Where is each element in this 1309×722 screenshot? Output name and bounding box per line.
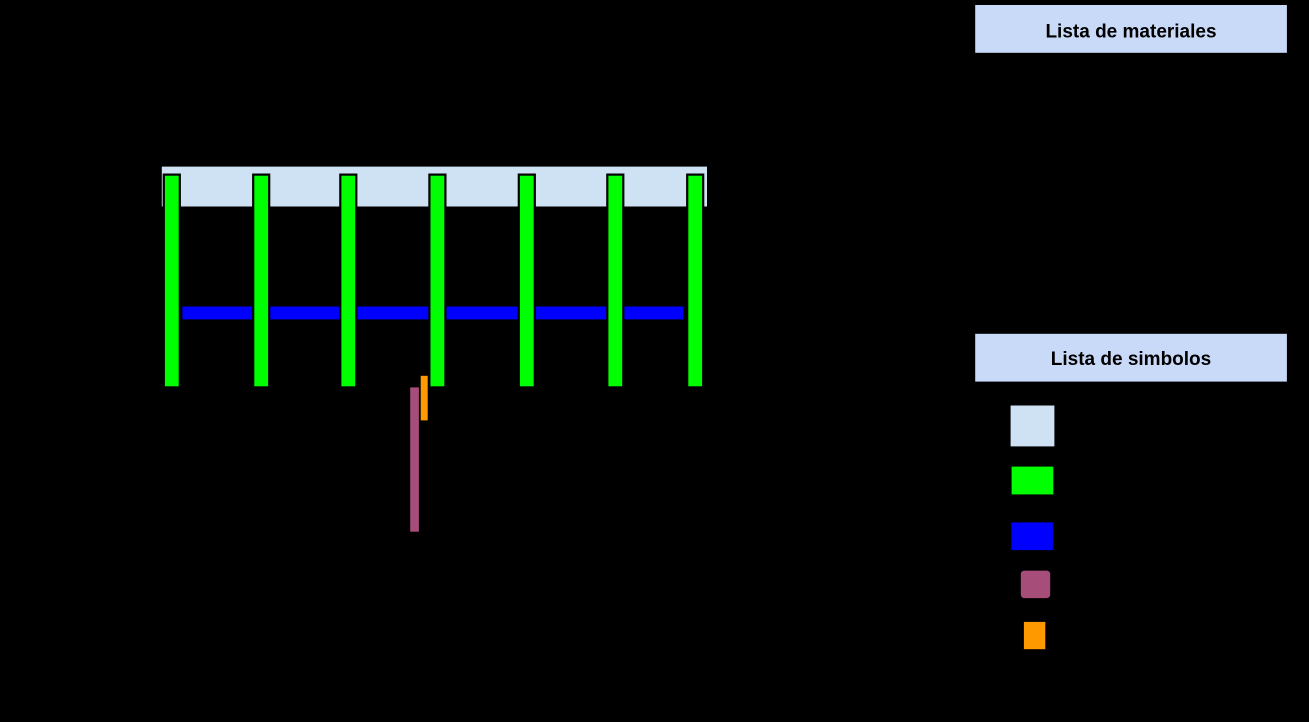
legend swatch beam (azul)	[1011, 522, 1054, 551]
legend swatch purple (morado)	[1020, 570, 1050, 599]
svg-text:Lista de materiales: Lista de materiales	[1045, 21, 1216, 42]
header Lista de materiales	[975, 5, 1288, 54]
legend swatch orange (naranja)	[1023, 621, 1045, 649]
pile 6 (pilote verde)	[607, 175, 623, 388]
purple column (barra morada)	[410, 387, 419, 531]
header Lista de simbolos	[975, 333, 1288, 382]
orange column (barra naranja)	[421, 376, 428, 421]
legend swatch pile (verde)	[1011, 466, 1054, 495]
pile 2 (pilote verde)	[253, 175, 269, 388]
svg-text:Lista de simbolos: Lista de simbolos	[1051, 349, 1211, 370]
deck slab (losa superior celeste)	[161, 166, 707, 207]
blue beam (viga horizontal azul)	[182, 307, 683, 320]
pile 7 (pilote verde)	[687, 175, 703, 388]
legend swatch deck (celeste)	[1010, 405, 1055, 447]
pile 5 (pilote verde)	[519, 175, 535, 388]
pile 3 (pilote verde)	[340, 175, 356, 388]
pile 4 (pilote verde)	[429, 175, 445, 388]
pile 1 (pilote verde)	[164, 175, 180, 388]
